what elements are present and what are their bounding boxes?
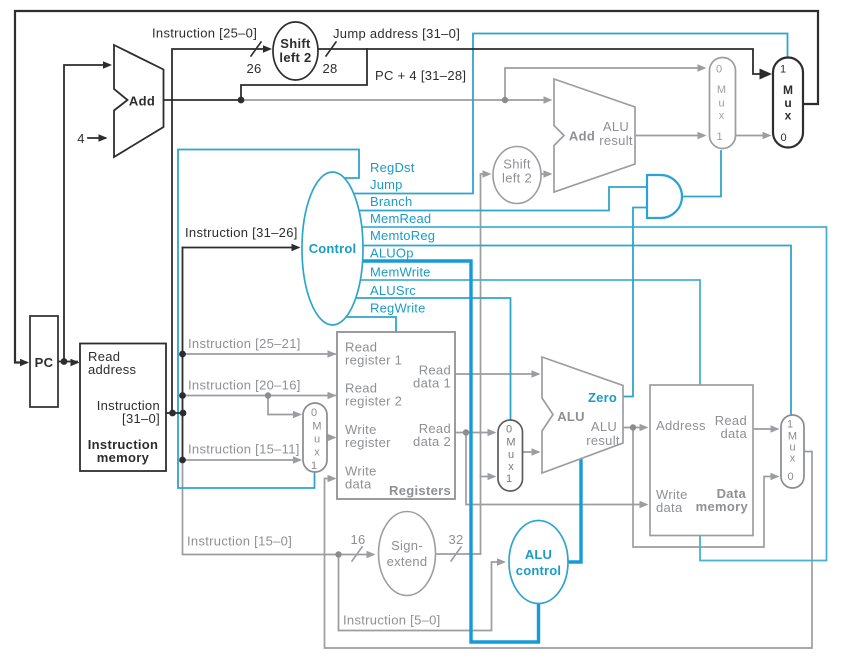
svg-text:result: result: [586, 433, 620, 448]
registers box: [337, 332, 455, 499]
wire PC+4 branch to mux M3 input 0: [505, 68, 703, 100]
svg-text:26: 26: [246, 61, 261, 76]
arrowhead into Add result bottom: [544, 170, 553, 178]
svg-text:Add: Add: [129, 94, 155, 109]
wire Instruction[5-0] to ALU control: [339, 555, 504, 631]
svg-text:1: 1: [780, 64, 786, 76]
arrowhead into mux M5 input 0: [771, 473, 780, 481]
svg-text:[31–0]: [31–0]: [122, 411, 160, 426]
mux M4 jump: [773, 58, 803, 148]
junction dot instruction bus B: [180, 410, 187, 417]
wire Sign-extend output: [436, 553, 481, 555]
wire Instruction[31-26] to Control: [183, 247, 298, 249]
wire Instruction[15-0] to Sign-extend: [183, 460, 372, 555]
mux M2 labels: [506, 424, 516, 486]
ALU control ellipse: [509, 521, 568, 604]
wire RegWrite control to Registers: [337, 317, 396, 331]
arrowhead into mux M1 input 0: [293, 411, 302, 419]
wire PC+4[31-28] up to jump address: [241, 49, 367, 100]
svg-text:x: x: [314, 447, 320, 459]
arrowhead into ALU input bottom: [532, 448, 541, 456]
arrowhead into mux M3 input 1: [698, 132, 707, 140]
svg-text:Jump address [31–0]: Jump address [31–0]: [333, 26, 460, 41]
svg-text:32: 32: [448, 532, 463, 547]
arrowhead into Read register 2: [328, 392, 337, 400]
wire constant 4 to Add: [88, 137, 105, 139]
wire mux M2 output to ALU: [523, 451, 539, 453]
svg-text:left 2: left 2: [279, 50, 311, 65]
arrowhead into Control: [292, 244, 301, 252]
wire jump address to mux M4 input 1: [318, 49, 769, 74]
junction dot sign-extend input: [335, 551, 341, 557]
wire mux M5 output writeback to Registers Write data: [325, 452, 813, 649]
svg-text:Shift: Shift: [503, 157, 531, 172]
junction dot PC output: [61, 358, 68, 365]
arrowhead into Add top: [103, 61, 112, 69]
svg-text:Instruction [15–11]: Instruction [15–11]: [188, 442, 300, 457]
control unit ellipse: [302, 172, 363, 325]
ALU: [542, 357, 623, 473]
arrowhead into mux M3 input 0: [698, 64, 707, 72]
bus slash 32: [451, 547, 461, 561]
svg-text:u: u: [508, 449, 514, 461]
arrowhead into Read address: [71, 359, 80, 367]
bus slash 26: [251, 42, 261, 56]
wire ALU control output to ALU: [567, 458, 581, 562]
svg-text:Address: Address: [656, 418, 706, 433]
AND gate: [647, 175, 682, 218]
svg-text:MemWrite: MemWrite: [370, 265, 431, 280]
adder Add: [114, 45, 164, 157]
svg-text:data 2: data 2: [413, 434, 451, 449]
svg-text:1: 1: [787, 419, 793, 431]
mux M3 branch: [710, 58, 736, 149]
svg-text:MemtoReg: MemtoReg: [370, 228, 435, 243]
svg-text:Instruction [31–26]: Instruction [31–26]: [185, 225, 298, 240]
junction dot PC+4: [238, 97, 245, 104]
arrowhead jump address into mux M4: [760, 69, 773, 80]
bus slash 16: [352, 547, 362, 561]
wire Read data 2 branch to Data memory Write data: [466, 433, 644, 505]
wire Instruction[25-21] to Read register 1: [184, 353, 335, 355]
sign-extend ellipse: [379, 512, 436, 596]
wire mux M1 output to Write register: [327, 437, 334, 439]
wire Instruction[20-16] branch to mux M1 input 0: [268, 396, 299, 415]
wire Read data 2 to mux M2 input 0: [455, 432, 493, 434]
arrowhead into PC: [20, 359, 29, 367]
mux M1 write register: [303, 403, 327, 472]
svg-text:M: M: [312, 421, 321, 433]
svg-text:x: x: [719, 110, 725, 122]
svg-text:28: 28: [322, 61, 337, 76]
svg-text:Sign-: Sign-: [391, 538, 423, 553]
adder Add ALU result: [554, 79, 635, 192]
svg-text:extend: extend: [387, 554, 428, 569]
arrowhead into Data memory Write data: [640, 501, 649, 509]
arrowhead into mux M4 input 0: [763, 132, 772, 140]
svg-text:u: u: [718, 98, 724, 110]
svg-text:1: 1: [716, 131, 722, 143]
svg-text:MemRead: MemRead: [370, 211, 431, 226]
junction dot read data 2: [463, 429, 469, 435]
svg-text:Instruction [25–0]: Instruction [25–0]: [152, 26, 257, 41]
svg-text:PC + 4 [31–28]: PC + 4 [31–28]: [375, 68, 466, 83]
svg-text:Registers: Registers: [389, 483, 451, 498]
arrowhead into Write register: [328, 434, 337, 442]
shift left 2 ellipse (jump): [273, 22, 318, 80]
svg-text:PC: PC: [35, 355, 54, 370]
instruction memory box: [80, 344, 166, 472]
wire MemRead control to Data memory: [340, 227, 827, 561]
svg-text:register 2: register 2: [345, 394, 402, 409]
wire Branch control to AND gate: [340, 187, 646, 211]
bus slash 28: [326, 42, 336, 56]
svg-text:Control: Control: [309, 241, 357, 256]
junction dot read register 2 branch: [265, 392, 271, 398]
svg-text:ALU: ALU: [603, 119, 629, 134]
mux M4 labels: [780, 64, 793, 145]
svg-text:ALU: ALU: [557, 409, 585, 424]
wire Instruction[25-0] to Shift left 2: [172, 49, 268, 413]
svg-text:0: 0: [787, 471, 793, 483]
wire ALUOp control to ALU control (2-bit bus): [340, 261, 539, 642]
svg-text:x: x: [508, 461, 514, 473]
arrowhead into Add result top: [544, 96, 553, 104]
wire PC value up to Add: [64, 65, 108, 362]
junction dot Instruction[20-16]: [179, 392, 186, 399]
svg-text:M: M: [506, 437, 515, 449]
arrowhead into ALU control: [497, 558, 506, 566]
junction dot ALU result: [630, 424, 636, 430]
svg-text:u: u: [314, 434, 320, 446]
svg-text:x: x: [785, 109, 792, 123]
svg-text:M: M: [783, 83, 793, 97]
svg-text:1: 1: [311, 460, 317, 472]
data memory box: [650, 385, 753, 536]
wire Instruction memory output bus: [166, 412, 184, 414]
arrowhead into Write data registers: [328, 475, 337, 483]
svg-text:data: data: [720, 426, 747, 441]
svg-text:Instruction [20–16]: Instruction [20–16]: [188, 378, 301, 393]
wire PC+4 to Add ALU result: [241, 99, 549, 101]
wire PC to Instruction memory Read address: [58, 361, 77, 363]
arrowhead into Data memory Address: [640, 424, 649, 432]
svg-text:16: 16: [350, 532, 365, 547]
wire instruction bus vertical: [182, 248, 184, 461]
mux M2 ALU source: [498, 420, 523, 491]
svg-text:0: 0: [311, 407, 317, 419]
svg-text:data 1: data 1: [413, 376, 451, 391]
wire RegDst control to mux M1 select: [178, 150, 359, 489]
wire Add ALU result output to mux M3 input 1: [635, 135, 703, 137]
svg-text:register: register: [345, 435, 391, 450]
wire Read data 1 to ALU: [455, 373, 538, 375]
wire sign-extend branch to mux M2 input 1: [481, 476, 494, 478]
junction dot Instruction[15-11]: [179, 457, 186, 464]
svg-text:data: data: [656, 500, 683, 515]
svg-text:result: result: [599, 133, 633, 148]
wire Instruction[15-11] to mux M1 input 1: [183, 459, 300, 461]
svg-text:0: 0: [506, 424, 512, 436]
svg-text:data: data: [345, 477, 372, 492]
svg-text:4: 4: [77, 131, 85, 146]
svg-text:RegWrite: RegWrite: [370, 301, 426, 316]
svg-text:ALU: ALU: [591, 419, 617, 434]
wire Data memory Read data to mux M5 input 1: [753, 428, 776, 430]
svg-text:control: control: [516, 563, 561, 578]
svg-text:x: x: [790, 453, 796, 465]
wire sign-extend up to Shift left 2: [481, 174, 489, 554]
wire Jump control to mux M4 select: [340, 34, 788, 194]
wire Shift left 2 output to Add ALU result: [541, 173, 549, 175]
wire PC feedback loop from mux M4 output: [15, 11, 818, 363]
shift left 2 ellipse (branch): [493, 147, 541, 204]
arrowhead into Sign-extend: [367, 551, 376, 559]
svg-text:Jump: Jump: [370, 177, 403, 192]
svg-text:Branch: Branch: [370, 194, 412, 209]
arrowhead into Add bottom: [99, 134, 108, 142]
svg-text:register 1: register 1: [345, 353, 402, 368]
svg-text:ALU: ALU: [525, 547, 552, 562]
wire ALUSrc control to mux M2 select: [340, 298, 511, 419]
svg-text:address: address: [88, 362, 137, 377]
svg-text:Shift: Shift: [280, 36, 311, 51]
svg-text:1: 1: [506, 473, 512, 485]
arrowhead into mux M5 input 1: [771, 425, 780, 433]
junction dot Instruction[25-21]: [179, 351, 186, 358]
svg-text:RegDst: RegDst: [370, 160, 415, 175]
wire MemWrite control to Data memory: [340, 280, 700, 384]
wire ALU result branch to mux M5 input 0: [633, 428, 776, 548]
arrowhead into Shift left 2 jump: [263, 45, 272, 53]
wire AND gate output to mux M3 select: [683, 151, 722, 197]
svg-text:0: 0: [716, 64, 722, 76]
mux M5 labels: [787, 419, 797, 484]
mux M1 labels: [311, 407, 322, 472]
junction dot instruction bus A: [169, 410, 176, 417]
mux M3 labels: [716, 64, 726, 144]
wire MemtoReg control to mux M5 select: [340, 246, 791, 415]
arrowhead into mux M2 input 1: [488, 473, 497, 481]
svg-text:Instruction [15–0]: Instruction [15–0]: [187, 534, 292, 549]
wire Add output PC+4: [164, 99, 242, 101]
svg-text:memory: memory: [696, 499, 749, 514]
svg-text:Zero: Zero: [588, 390, 617, 405]
arrowhead into mux M2 input 0: [488, 429, 497, 437]
arrowhead into Read register 1: [328, 350, 337, 358]
svg-text:Add: Add: [569, 129, 595, 144]
wire ALU result to Data memory Address: [623, 427, 645, 429]
svg-text:left 2: left 2: [502, 171, 532, 186]
svg-text:M: M: [717, 84, 726, 96]
PC register box: [30, 316, 58, 407]
svg-text:ALUOp: ALUOp: [370, 246, 414, 261]
svg-text:Instruction [5–0]: Instruction [5–0]: [343, 613, 441, 628]
wire Instruction[20-16] to Read register 2: [184, 395, 335, 397]
arrowhead into ALU input top: [532, 370, 541, 378]
svg-text:0: 0: [780, 132, 786, 144]
mux M5 memtoreg: [781, 415, 804, 488]
wire mux M3 output to mux M4 input 0: [736, 135, 768, 137]
wire Zero flag to AND gate: [623, 208, 646, 397]
junction dot PC+4 to mux: [502, 97, 508, 103]
svg-text:memory: memory: [97, 450, 150, 465]
svg-text:Instruction [25–21]: Instruction [25–21]: [188, 336, 301, 351]
arrowhead into mux M1 input 1: [293, 456, 302, 464]
arrowhead into Shift left 2 branch: [483, 170, 492, 178]
svg-text:ALUSrc: ALUSrc: [370, 283, 416, 298]
